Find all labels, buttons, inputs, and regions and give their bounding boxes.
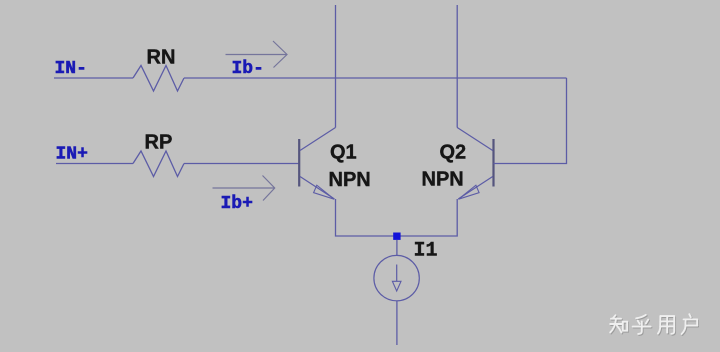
svg-text:Q2: Q2 bbox=[440, 142, 467, 164]
resistor RN bbox=[133, 66, 184, 92]
svg-text:Ib+: Ib+ bbox=[221, 194, 253, 214]
transistor Q2 bbox=[457, 128, 493, 200]
char 用 bbox=[658, 316, 674, 334]
svg-text:NPN: NPN bbox=[329, 169, 371, 191]
svg-text:IN+: IN+ bbox=[56, 145, 88, 165]
svg-text:I1: I1 bbox=[414, 240, 438, 263]
current source I1 bbox=[374, 255, 419, 300]
wire RP to Q1 base bbox=[184, 163, 299, 165]
wire Q2 collector up bbox=[456, 5, 458, 128]
char 知 bbox=[610, 315, 627, 332]
svg-text:IN-: IN- bbox=[55, 59, 87, 79]
wire I1 to bottom bbox=[396, 301, 398, 345]
char 户 bbox=[682, 314, 698, 334]
wire Q1 emitter down bbox=[336, 199, 394, 236]
svg-text:RN: RN bbox=[147, 47, 176, 69]
wire RN to feedback corner bbox=[184, 77, 567, 79]
junction node emitters/I1 bbox=[393, 233, 400, 240]
wire Q1 collector up bbox=[335, 5, 337, 128]
transistor Q1 bbox=[299, 128, 335, 200]
wire Q2 emitter down bbox=[401, 199, 458, 236]
wire IN- to RN bbox=[54, 77, 133, 79]
wire node to I1 bbox=[396, 240, 398, 256]
svg-text:Q1: Q1 bbox=[330, 142, 357, 164]
current arrow Ib+ bbox=[213, 176, 275, 201]
svg-text:NPN: NPN bbox=[422, 169, 464, 191]
wire feedback from RN net down to Q2 base bbox=[494, 78, 567, 164]
resistor RP bbox=[133, 151, 184, 177]
watermark 知乎用户 bbox=[610, 314, 698, 335]
char 乎 bbox=[633, 315, 651, 334]
svg-text:Ib-: Ib- bbox=[232, 59, 264, 79]
current arrow Ib- bbox=[226, 41, 288, 68]
wire IN+ to RP bbox=[56, 163, 133, 165]
svg-text:RP: RP bbox=[145, 132, 173, 154]
